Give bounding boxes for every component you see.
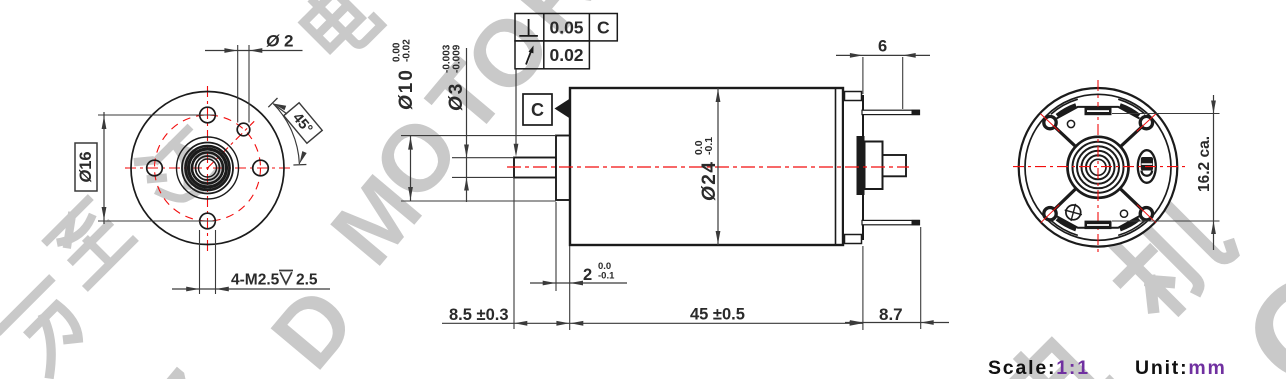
- connector capsule: [1138, 150, 1156, 183]
- Ø16 label box: [75, 143, 97, 191]
- svg-text:6: 6: [878, 38, 887, 56]
- rear shaft stub: [883, 155, 907, 176]
- boss Ø10: [556, 136, 570, 201]
- dim Ø10: [401, 135, 556, 137]
- svg-text:C: C: [531, 100, 544, 120]
- datum C box: [523, 94, 552, 125]
- X arms to rivets: [1054, 126, 1076, 146]
- shaft (front): [514, 158, 556, 178]
- rear hub concentric circles: [1068, 137, 1129, 198]
- small holes rear: [1067, 120, 1074, 127]
- bearing holder: [865, 142, 883, 190]
- terminal bars rear: [1085, 107, 1112, 116]
- left view: front face of motor: [75, 32, 330, 295]
- brush card black bar: [857, 136, 865, 195]
- end cap: [843, 96, 863, 239]
- svg-text:-0.009: -0.009: [452, 44, 463, 73]
- Ø3 label: [442, 44, 468, 111]
- perpendicularity symbol: [519, 19, 538, 36]
- svg-text:Ø 2: Ø 2: [266, 32, 293, 51]
- crimp tabs: [845, 92, 862, 101]
- stamped plate edges top: [1057, 107, 1140, 119]
- tolerance frame row1: perpendicularity 0.05 C: [515, 14, 617, 69]
- svg-text:-0.02: -0.02: [402, 39, 413, 62]
- stamped plate edges bottom: [1057, 216, 1140, 228]
- svg-text:16.2 ca.: 16.2 ca.: [1196, 136, 1213, 192]
- red diagonal marks at rivets: [1041, 114, 1060, 132]
- dim 6 (terminal): [862, 57, 864, 94]
- dim Ø16 bolt circle: [98, 114, 214, 116]
- dim Ø2 small hole: [237, 45, 239, 123]
- crimp line near rear: [835, 88, 837, 245]
- svg-text:C: C: [597, 18, 610, 38]
- dim 8.5 +-0.3: [513, 179, 515, 330]
- svg-text:-0.1: -0.1: [598, 271, 615, 282]
- scale and unit note: [988, 357, 1227, 379]
- dim 45 +-0.5: [862, 246, 864, 330]
- wing slots (4 crescent cutouts): [1118, 99, 1145, 114]
- crossed screw circle: [1066, 205, 1081, 220]
- svg-text:Ø10: Ø10: [396, 68, 417, 110]
- middle view: side section of motor: [392, 14, 950, 331]
- motor body: [570, 88, 843, 245]
- dim Ø3: [452, 157, 514, 159]
- dim 16.2 ca.: [1112, 113, 1220, 115]
- circular runout symbol: [526, 50, 532, 65]
- rear view of motor: [1013, 80, 1220, 253]
- inner circle rear: [1025, 94, 1171, 240]
- svg-text:Scale:1:1: Scale:1:1: [988, 357, 1090, 379]
- angular dim 45deg arc: [273, 104, 299, 165]
- svg-text:2: 2: [583, 266, 592, 284]
- red centerlines front view: [125, 167, 291, 169]
- hub concentric circles: [177, 137, 239, 199]
- svg-text:Ø16: Ø16: [77, 151, 95, 182]
- mounting holes M2.5: [200, 107, 216, 123]
- datum triangle on body face: [555, 99, 571, 119]
- frame leader to shaft: [515, 69, 517, 144]
- svg-text:Unit:mm: Unit:mm: [1135, 357, 1227, 379]
- svg-text:0.02: 0.02: [549, 45, 583, 65]
- red centerlines rear: [1013, 166, 1185, 168]
- svg-text:4-M2.5: 4-M2.5: [231, 272, 280, 289]
- 45deg rotated label box: [284, 103, 322, 143]
- outer circle rear: [1019, 88, 1178, 247]
- red bolt circle: [155, 115, 261, 221]
- svg-text:8.5 ±0.3: 8.5 ±0.3: [449, 306, 509, 324]
- dim 4-M2.5 depth 2.5: [199, 230, 201, 294]
- small hole at 45deg (pilot): [237, 123, 250, 136]
- svg-text:0.05: 0.05: [549, 18, 583, 38]
- svg-text:2.5: 2.5: [296, 272, 318, 289]
- dim Ø24: [717, 88, 719, 245]
- Ø24 label: [693, 137, 720, 201]
- svg-text:8.7: 8.7: [879, 305, 903, 324]
- red axis centerline: [507, 166, 909, 168]
- dim 2 (boss length): [555, 202, 557, 291]
- svg-text:45 ±0.5: 45 ±0.5: [690, 306, 745, 324]
- rivet rings: [1044, 116, 1056, 128]
- Ø10 label: [392, 39, 418, 110]
- svg-text:Ø3: Ø3: [446, 82, 467, 111]
- dim 8.7: [920, 227, 922, 329]
- outer flange circle: [131, 92, 284, 245]
- svg-text:Ø24: Ø24: [699, 161, 720, 201]
- svg-text:-0.1: -0.1: [703, 137, 715, 155]
- terminal pins side: [862, 110, 920, 114]
